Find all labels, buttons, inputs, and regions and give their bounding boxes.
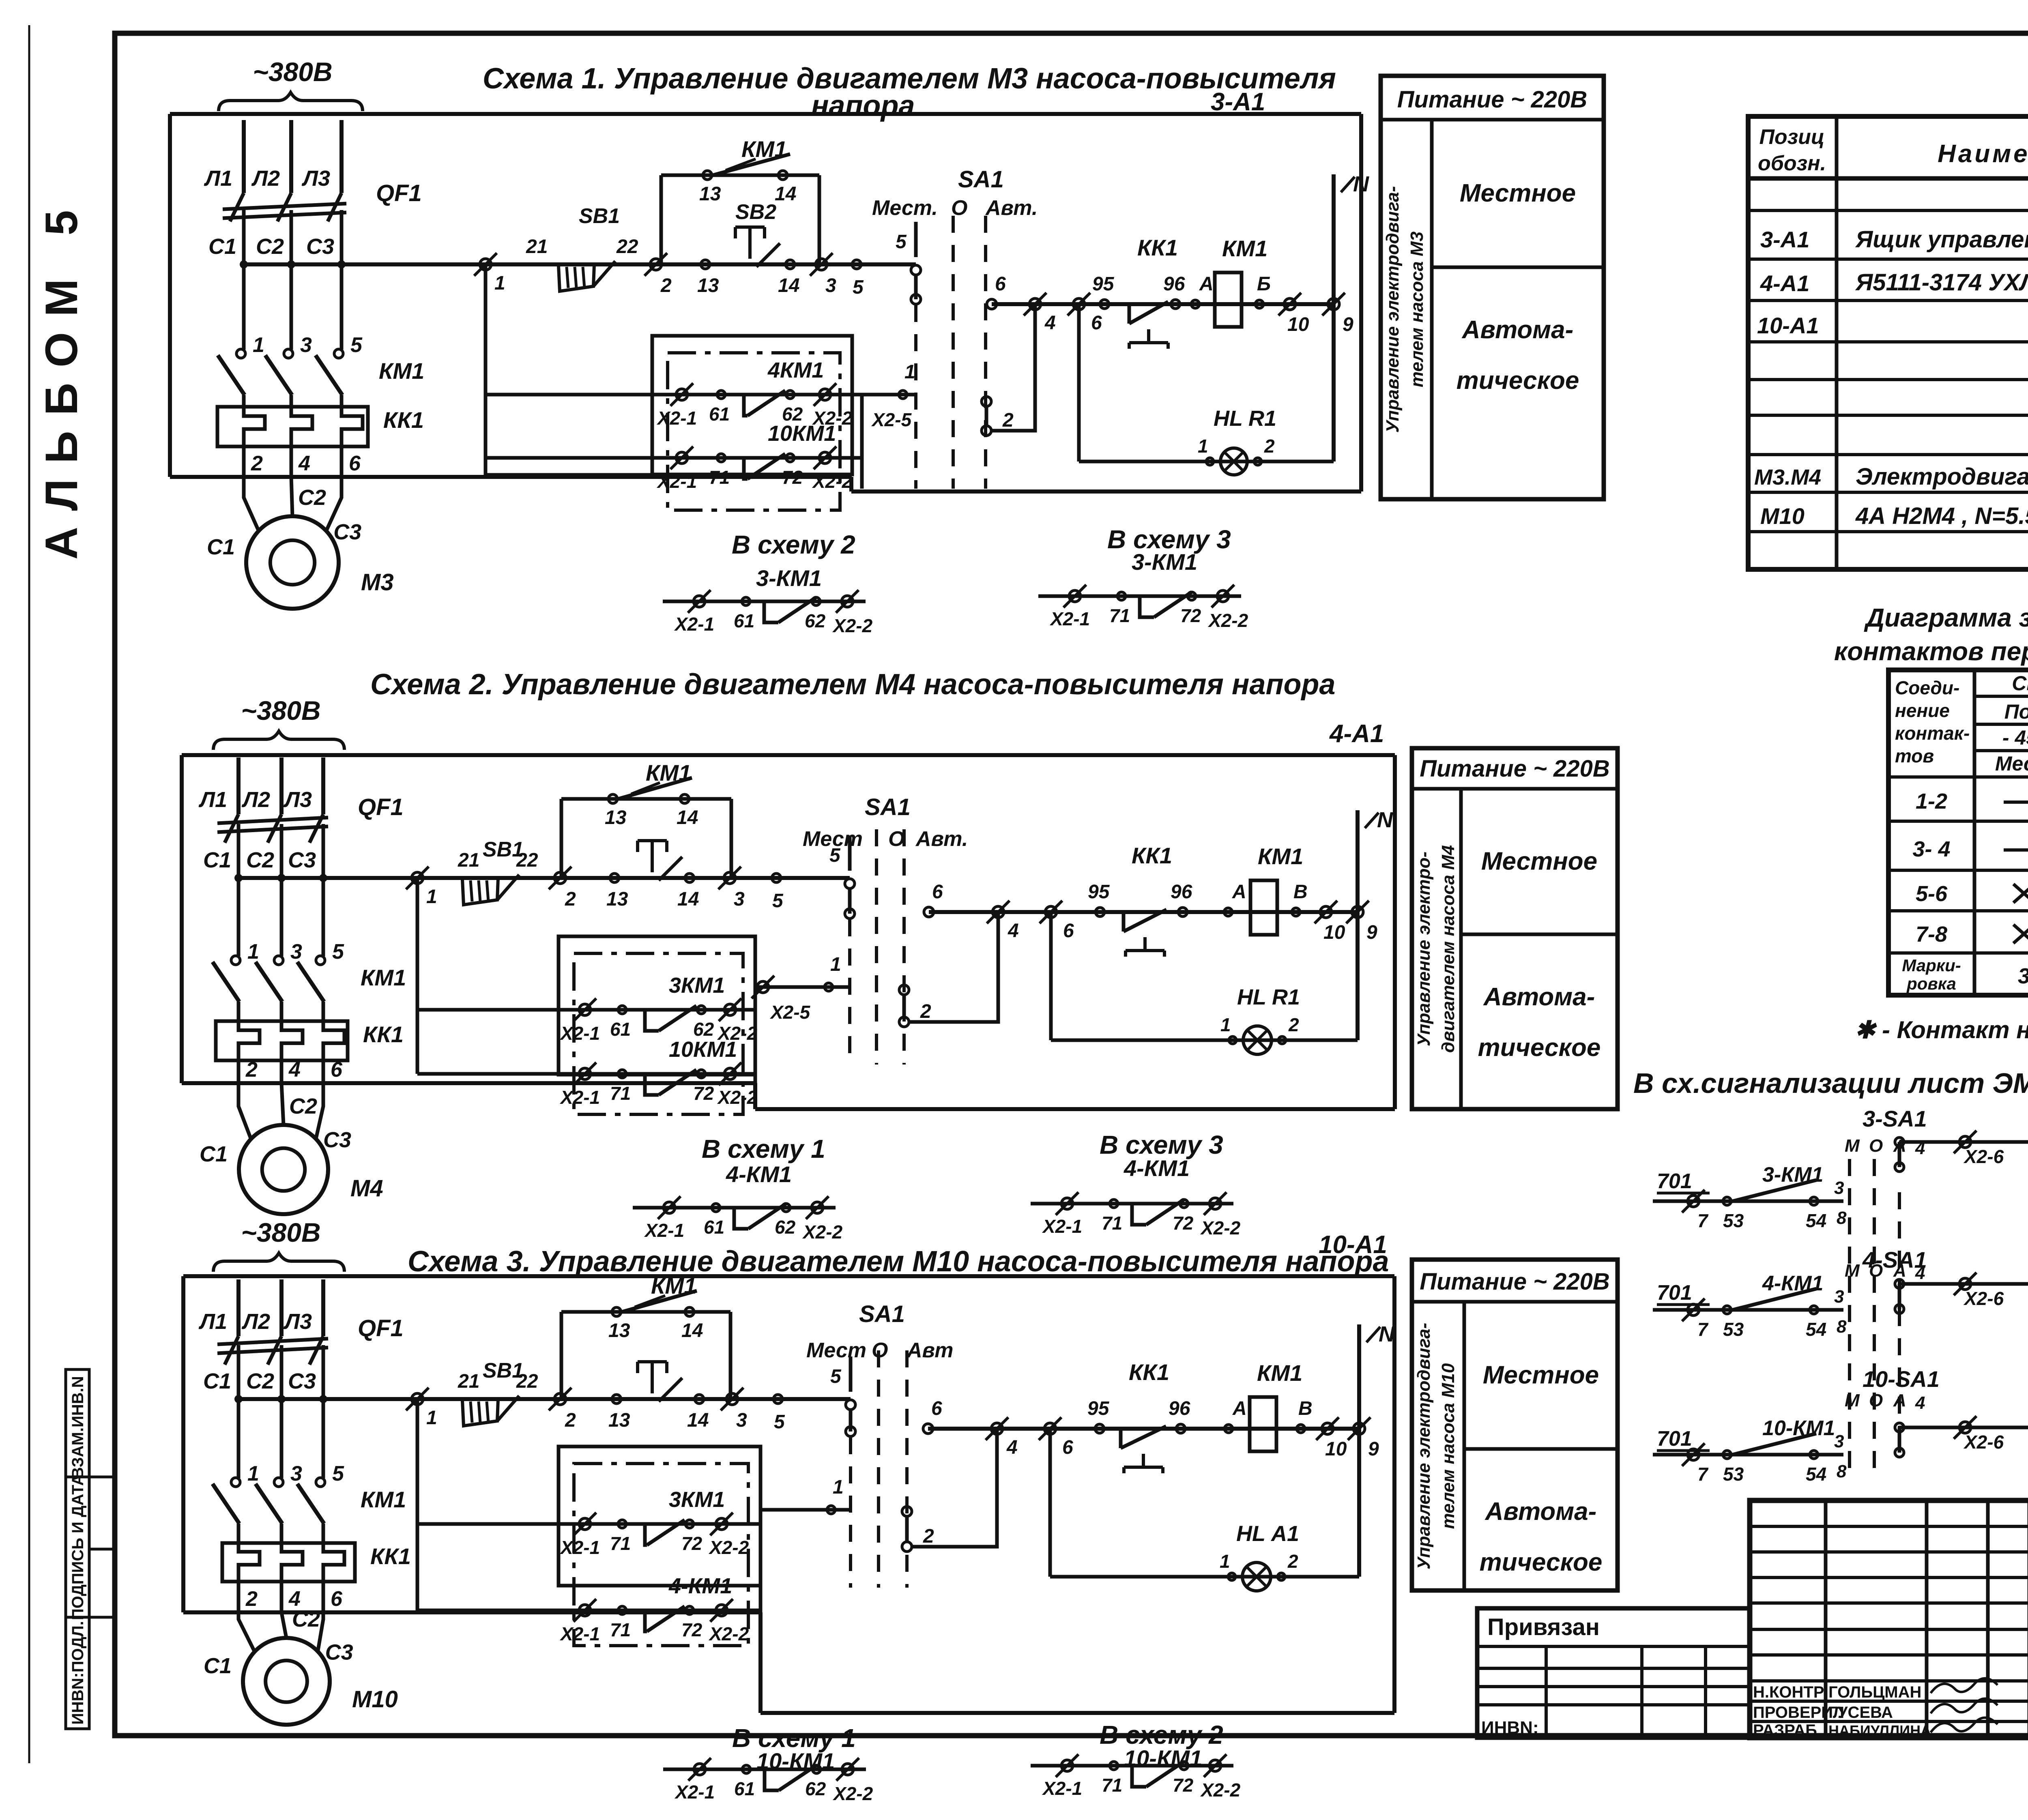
svg-text:13: 13 [699, 183, 721, 205]
SA1 row line [1974, 749, 2028, 752]
contact 96 [1171, 300, 1180, 309]
svg-text:3: 3 [1834, 1287, 1844, 1307]
thermal relay КК1 heaters [238, 1021, 260, 1060]
svg-text:1: 1 [1198, 436, 1208, 457]
wire phase out 6 [340, 446, 344, 477]
KM1 pointer [635, 1296, 665, 1307]
title block frame [1750, 1500, 2028, 1738]
svg-text:72: 72 [681, 1619, 702, 1640]
svg-text:С3: С3 [325, 1640, 353, 1665]
svg-text:Мест: Мест [806, 1339, 866, 1362]
title block row [1750, 1601, 2028, 1605]
wire motor lead 2 [281, 1083, 284, 1125]
svg-text:Авт.: Авт. [985, 196, 1038, 220]
svg-text:3: 3 [736, 1410, 747, 1431]
svg-text:9: 9 [1368, 1438, 1379, 1460]
svg-text:М: М [1845, 1391, 1860, 1410]
svg-text:14: 14 [775, 183, 796, 205]
thermal relay КК1 heaters [244, 407, 265, 446]
svg-text:6: 6 [331, 1587, 343, 1611]
svg-text:КМ1: КМ1 [1257, 1360, 1302, 1386]
svg-text:1: 1 [247, 1462, 259, 1485]
svg-text:2: 2 [245, 1587, 258, 1611]
cabinet box 4-A1 top [182, 753, 1395, 757]
svg-text:3: 3 [290, 940, 302, 964]
wire right bus [754, 1010, 757, 1109]
svg-text:2: 2 [923, 1526, 934, 1547]
contactor KM1 aux contact [615, 778, 692, 800]
terminal right [1217, 590, 1229, 602]
svg-text:Управление электродвига-: Управление электродвига- [1414, 1323, 1434, 1569]
wire phase 1 [242, 210, 246, 350]
node Л3 feeder [321, 1279, 325, 1336]
wire lamp line [1050, 1575, 1359, 1579]
svg-text:КМ1: КМ1 [1222, 236, 1267, 261]
contact 71 left [717, 454, 725, 462]
svg-text:А: А [1199, 273, 1214, 295]
thermal relay КК1 box [217, 407, 368, 446]
svg-text:Н.КОНТР: Н.КОНТР [1753, 1683, 1824, 1701]
svg-text:Марки-: Марки- [1902, 956, 1961, 975]
wire main line [417, 876, 850, 880]
svg-text:8: 8 [1837, 1462, 1847, 1481]
label 1 lamp [1229, 1037, 1236, 1044]
svg-text:22: 22 [516, 850, 538, 871]
svg-text:72: 72 [1173, 1213, 1194, 1234]
contactor KM1 main contacts [231, 1478, 240, 1487]
contact KM1 [1729, 1434, 1816, 1455]
svg-text:61: 61 [734, 610, 754, 631]
svg-text:Питание ~ 220В: Питание ~ 220В [1420, 1268, 1609, 1295]
svg-text:Л2: Л2 [241, 1309, 270, 1334]
brace [213, 731, 344, 750]
wire phase out 6 [322, 1060, 325, 1083]
wire phase 3 [322, 1345, 325, 1478]
svg-text:РАЗРАБ: РАЗРАБ [1753, 1721, 1817, 1739]
contact right [1188, 592, 1196, 600]
svg-text:НАБИУЛЛИНА: НАБИУЛЛИНА [1828, 1722, 1931, 1739]
svg-text:Управление электро-: Управление электро- [1414, 852, 1434, 1046]
node 2 [554, 872, 566, 884]
svg-text:Л2: Л2 [241, 788, 270, 812]
wire auto line [928, 1427, 1359, 1431]
svg-text:Х2-1: Х2-1 [644, 1220, 684, 1241]
selector column Мест [914, 222, 918, 257]
breaker QF1 bar [223, 204, 346, 209]
label 2 lamp [1278, 1573, 1285, 1580]
svg-text:ГУСЕВА: ГУСЕВА [1828, 1704, 1893, 1721]
contact 72 right [786, 454, 794, 462]
wire chain [1653, 1308, 1843, 1312]
svg-text:КМ1: КМ1 [361, 1487, 406, 1512]
svg-text:телем насоса М10: телем насоса М10 [1438, 1363, 1458, 1529]
wire chain [1653, 1453, 1843, 1457]
svg-text:6: 6 [331, 1058, 343, 1082]
contact KM1 13 [608, 794, 617, 803]
svg-text:В схему 2: В схему 2 [732, 530, 855, 559]
svg-text:72: 72 [693, 1083, 714, 1104]
svg-text:1: 1 [494, 273, 505, 294]
svg-text:1-2: 1-2 [1916, 789, 1947, 813]
svg-text:3-КМ1: 3-КМ1 [1132, 549, 1197, 575]
wire node1 drop [484, 264, 488, 475]
contact 5 [773, 1395, 782, 1404]
node Л1 feeder [236, 758, 241, 814]
svg-text:4-КМ1: 4-КМ1 [1124, 1155, 1190, 1181]
svg-text:3: 3 [1834, 1178, 1844, 1198]
svg-text:С2: С2 [298, 485, 326, 510]
svg-text:4А Н2М4 , N=5.5: 4А Н2М4 , N=5.5 [1855, 503, 2028, 529]
svg-text:Местное: Местное [1483, 1361, 1599, 1389]
contact 6 start [924, 907, 934, 917]
contact 71 left [618, 1606, 626, 1614]
contact 61 of 3КМ1 [645, 1010, 659, 1031]
title block row [1750, 1679, 2028, 1683]
svg-text:701: 701 [1657, 1281, 1692, 1305]
svg-text:10КМ1: 10КМ1 [669, 1037, 737, 1062]
outer thin border left [28, 25, 30, 1763]
SA1 row line [1888, 951, 2028, 955]
wire phase 3 [340, 210, 344, 350]
contact 62 right [697, 1006, 705, 1014]
svg-text:Позиц: Позиц [1759, 125, 1824, 149]
motor М10 [243, 1638, 330, 1725]
contact KM1 14 [778, 171, 787, 180]
thermal contact КК1 [1119, 1429, 1123, 1448]
svg-text:72: 72 [1173, 1775, 1194, 1796]
svg-text:5-6: 5-6 [1916, 882, 1948, 906]
svg-text:10-КМ1: 10-КМ1 [1762, 1417, 1835, 1440]
wire branch left [660, 175, 663, 264]
wire N [1357, 1324, 1361, 1577]
cabinet box right [1359, 114, 1363, 491]
signature squiggles [1931, 1678, 1998, 1693]
wire interlock row 1 [417, 1008, 755, 1012]
wire 715 out [1899, 1426, 2028, 1429]
svg-text:13: 13 [605, 807, 627, 828]
node 2 [650, 259, 662, 270]
brace [213, 1253, 344, 1272]
svg-text:71: 71 [610, 1083, 631, 1104]
svg-text:КМ1: КМ1 [1258, 843, 1303, 869]
node Л2 feeder [279, 758, 284, 814]
terminal Х2-5 [757, 981, 769, 993]
interlock outer box [652, 336, 852, 474]
parts table frame [1748, 116, 2028, 569]
wire phase out 2 [242, 446, 246, 477]
привязан cols [1545, 1646, 1548, 1738]
title block col a [1824, 1500, 1828, 1738]
svg-text:Питание ~ 220В: Питание ~ 220В [1420, 755, 1609, 782]
breaker QF1 bar2 [217, 1348, 328, 1353]
svg-text:10-А1: 10-А1 [1319, 1231, 1387, 1259]
svg-text:С3: С3 [306, 234, 334, 259]
junction dots [234, 874, 243, 882]
interlock dash box [574, 953, 743, 1114]
contactor KM1 aux contact [619, 1291, 697, 1313]
terminal Х2-1 row 1 [579, 1518, 591, 1530]
title block row [1750, 1720, 2028, 1723]
power box divider [1464, 1447, 1618, 1451]
wire interlock row 2 [417, 1609, 760, 1612]
terminal Х2-6 [1959, 1278, 1971, 1290]
wire interlock row 2 [417, 1072, 755, 1076]
contact 96 [1178, 908, 1187, 916]
svg-text:А: А [1893, 1261, 1906, 1281]
selector column O [875, 829, 878, 1065]
svg-text:4: 4 [288, 1058, 301, 1082]
selector Авт contact 1-2 [982, 397, 991, 406]
svg-text:4-КМ1: 4-КМ1 [726, 1161, 792, 1187]
svg-text:С2: С2 [289, 1094, 317, 1118]
svg-text:701: 701 [1657, 1427, 1692, 1451]
KM1 pointer [726, 159, 756, 170]
svg-text:3: 3 [2018, 964, 2028, 988]
parts table row line [1748, 340, 2028, 343]
terminal Х2-2 row 1 [716, 1518, 727, 1530]
contact А [1224, 908, 1232, 916]
svg-text:21: 21 [526, 236, 548, 258]
wire phase out 2 [237, 1582, 241, 1612]
svg-text:М3: М3 [361, 569, 394, 595]
svg-text:М10: М10 [1760, 503, 1805, 529]
svg-text:10: 10 [1323, 922, 1345, 943]
contactor KM1 aux contact [710, 154, 790, 176]
contact 71 left [618, 1070, 626, 1078]
svg-text:Х2-1: Х2-1 [559, 1023, 600, 1044]
svg-text:1: 1 [1220, 1014, 1231, 1035]
svg-text:тов: тов [1895, 745, 1934, 766]
svg-text:Мест: Мест [803, 827, 863, 851]
power box column [1459, 789, 1463, 1109]
contact 96 [1176, 1424, 1185, 1433]
svg-text:С1: С1 [200, 1142, 228, 1166]
stamp strip divider [89, 1548, 115, 1551]
lamp HL R1 [1220, 448, 1247, 475]
label 2 lamp [1278, 1037, 1286, 1044]
svg-text:Наименование: Наименование [1938, 140, 2028, 168]
thermal contact КК1 [1128, 304, 1131, 324]
svg-text:4: 4 [1915, 1393, 1925, 1413]
svg-text:22: 22 [616, 236, 638, 258]
wire phase 2 [280, 1345, 284, 1478]
svg-text:Б: Б [1257, 273, 1271, 295]
svg-text:двигателем насоса М4: двигателем насоса М4 [1438, 845, 1458, 1053]
svg-text:2: 2 [565, 1410, 576, 1431]
svg-text:КК1: КК1 [1137, 235, 1178, 260]
node Л3 feeder [339, 120, 344, 193]
wire drop bottom [486, 473, 652, 477]
terminal right [1209, 1760, 1221, 1771]
svg-text:Авт.: Авт. [915, 827, 968, 851]
wire phases to KK1 [237, 1524, 241, 1543]
wire motor lead 3 [316, 1083, 323, 1140]
svg-text:22: 22 [516, 1371, 538, 1392]
привязан block [1477, 1608, 1750, 1738]
start button SB2 [735, 225, 765, 229]
svg-text:10-SA1: 10-SA1 [1863, 1366, 1940, 1392]
svg-text:6: 6 [932, 881, 943, 903]
contact 5 [852, 260, 861, 269]
terminal Х2-1 row 2 [579, 1605, 591, 1616]
svg-text:96: 96 [1163, 273, 1185, 295]
brace [219, 92, 363, 111]
cabinet box left [180, 755, 184, 1083]
contact [1132, 1204, 1146, 1225]
svg-text:2: 2 [1288, 1014, 1299, 1035]
contactor KM1 main contacts [231, 956, 240, 965]
svg-text:Л3: Л3 [283, 788, 312, 812]
contact col solid [1895, 1423, 1904, 1432]
parts table row line [1748, 299, 2028, 302]
svg-text:С3: С3 [333, 520, 361, 544]
wire main line [486, 262, 916, 266]
svg-text:1: 1 [830, 954, 841, 975]
svg-text:61: 61 [704, 1217, 724, 1238]
cabinet box bottom right [851, 489, 1361, 494]
svg-text:10: 10 [1287, 314, 1309, 335]
svg-text:10: 10 [1325, 1438, 1347, 1460]
svg-text:5: 5 [774, 1411, 785, 1433]
breaker QF1 bar2 [223, 212, 346, 218]
svg-text:- 45°: - 45° [2002, 726, 2028, 749]
interlock dash box [668, 353, 840, 510]
svg-text:2: 2 [660, 275, 672, 296]
svg-text:1: 1 [1220, 1551, 1230, 1572]
node 9 [1352, 906, 1363, 918]
svg-text:Л1: Л1 [198, 788, 227, 812]
terminal 7 [1688, 1195, 1699, 1207]
svg-text:обозн.: обозн. [1758, 152, 1826, 175]
terminal left [1061, 1198, 1073, 1209]
contact KM1 14 [685, 1307, 694, 1316]
svg-text:М4: М4 [350, 1175, 383, 1202]
svg-text:21: 21 [458, 850, 479, 871]
contact 54 [1810, 1451, 1818, 1459]
svg-text:62: 62 [693, 1019, 714, 1040]
KM1 pointer [631, 783, 660, 794]
junction dots [234, 1395, 243, 1403]
привязан rows [1477, 1645, 1750, 1648]
breaker QF1 bar2 [217, 826, 328, 832]
svg-text:Х2-6: Х2-6 [1963, 1146, 2004, 1167]
svg-text:4-А1: 4-А1 [1329, 720, 1384, 748]
thermal contact КК1 [1122, 912, 1126, 931]
svg-text:4КМ1: 4КМ1 [767, 358, 824, 382]
wire motor lead 3 [318, 1612, 323, 1653]
title block col c [1986, 1500, 1990, 1738]
contact 6 start [987, 299, 997, 309]
cabinet box right [1392, 1276, 1396, 1713]
wire control bus [238, 1397, 417, 1401]
wire control bus [244, 262, 486, 266]
terminal Х2-2 row 1 [724, 1004, 736, 1015]
cabinet box bottom right [755, 1107, 1395, 1111]
cabinet box step [849, 477, 853, 491]
power box column [1463, 1302, 1466, 1590]
svg-text:13: 13 [608, 1410, 630, 1431]
wire right bus [759, 1524, 763, 1713]
contact left [742, 1765, 750, 1773]
svg-text:С1: С1 [208, 234, 236, 259]
contactor coil КМ1 [1215, 273, 1242, 327]
contact KM1 13 [703, 171, 712, 180]
wire phase out 6 [322, 1582, 325, 1612]
svg-text:ГОЛЬЦМАН: ГОЛЬЦМАН [1828, 1683, 1921, 1701]
svg-text:Х2-1: Х2-1 [674, 614, 714, 635]
svg-text:ИНВN:ПОДЛ.: ИНВN:ПОДЛ. [69, 1621, 87, 1725]
contact right [812, 597, 820, 605]
contact 1 sa [825, 983, 833, 991]
label 1 lamp [1206, 458, 1214, 465]
node 9 [1328, 298, 1339, 310]
power box М4 [1412, 748, 1618, 1109]
svg-text:М10: М10 [352, 1686, 398, 1713]
svg-text:1: 1 [833, 1477, 844, 1498]
svg-text:4: 4 [1915, 1263, 1925, 1283]
contact 71 left [618, 1520, 626, 1528]
wire Х2-5 [862, 393, 917, 397]
svg-text:Л1: Л1 [198, 1309, 227, 1334]
svg-text:Автома-: Автома- [1483, 983, 1595, 1011]
node Л1 feeder [242, 120, 246, 193]
wire motor lead 3 [326, 477, 342, 532]
terminal Х2-2 row 1 [819, 389, 831, 400]
signal dashed column О [1873, 1159, 1876, 1480]
svg-text:Электродвигатель ~380В: Электродвигатель ~380В [1856, 464, 2028, 490]
contact 95 [1096, 908, 1104, 916]
contact 1 sa [899, 391, 907, 399]
svg-text:С1: С1 [203, 848, 231, 872]
title block row [1750, 1576, 2028, 1579]
svg-text:Х2-1: Х2-1 [674, 1781, 715, 1803]
svg-text:тическое: тическое [1478, 1034, 1601, 1062]
terminal right [842, 596, 853, 607]
selector column Авт [902, 829, 906, 1065]
svg-text:Х2-1: Х2-1 [656, 408, 697, 429]
node 1 [412, 872, 423, 884]
svg-text:4: 4 [298, 452, 310, 475]
svg-text:SB2: SB2 [735, 200, 776, 224]
svg-text:Местное: Местное [1481, 848, 1597, 876]
thermal relay КК1 box [222, 1543, 355, 1582]
title block col d [2028, 1500, 2028, 1738]
svg-text:53: 53 [1723, 1210, 1744, 1231]
node 6b [1073, 298, 1085, 310]
selector column Мест [849, 1356, 853, 1392]
title block row [1750, 1550, 2028, 1554]
cabinet box bottom left [183, 1610, 760, 1614]
svg-text:Диаграмма замыкания: Диаграмма замыкания [1864, 603, 2028, 632]
wire 2 to auto line [912, 1429, 997, 1547]
wire control bus [238, 876, 417, 880]
svg-text:Х2-2: Х2-2 [708, 1537, 749, 1558]
svg-text:N: N [1377, 808, 1393, 832]
svg-text:14: 14 [677, 807, 698, 828]
terminal left [1069, 590, 1081, 602]
contact Б [1255, 300, 1263, 308]
svg-text:Л3: Л3 [283, 1309, 312, 1334]
parts table row line [1748, 414, 2028, 417]
contact 14 main [786, 260, 795, 269]
node 4 [991, 1423, 1003, 1434]
svg-text:96: 96 [1169, 1398, 1190, 1419]
svg-text:3-А1: 3-А1 [1211, 88, 1265, 116]
node 3 [724, 872, 735, 884]
svg-text:контак-: контак- [1895, 723, 1970, 744]
svg-text:HL R1: HL R1 [1214, 406, 1276, 431]
svg-text:61: 61 [709, 403, 730, 425]
